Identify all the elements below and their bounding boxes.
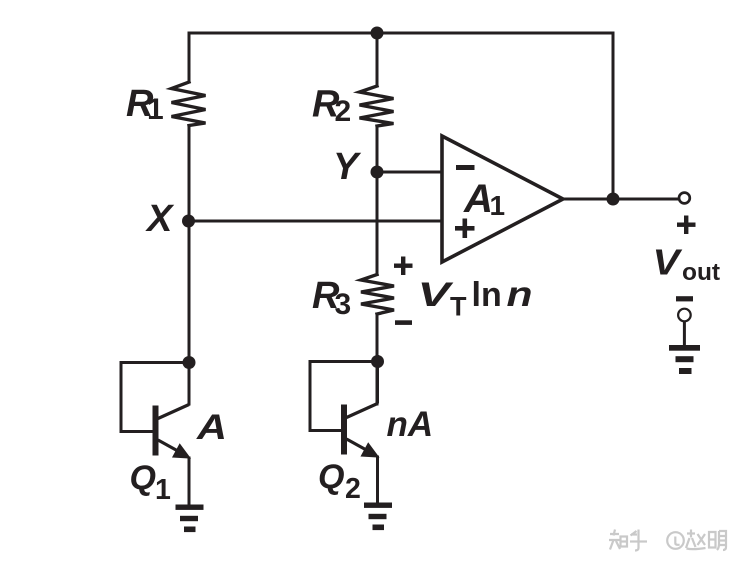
wire right vertical from top rail to output node — [612, 33, 615, 199]
wire left branch (R1 bottom through node X down to Q1 collector) — [188, 126, 191, 405]
label A1 (op-amp) — [463, 177, 505, 221]
Vout plus sign — [677, 216, 696, 235]
op-amp minus input sign — [456, 165, 475, 170]
svg-text:2: 2 — [345, 473, 361, 505]
svg-text:1: 1 — [490, 190, 506, 221]
transistor Q2 — [344, 355, 378, 503]
node Y junction dot — [371, 166, 384, 179]
node X junction dot — [182, 215, 195, 228]
label Q2 — [318, 458, 361, 505]
label node X — [145, 198, 175, 240]
Vout minus sign — [676, 296, 693, 301]
svg-text:Q: Q — [130, 459, 156, 497]
node dot top rail/R2 junction — [371, 27, 384, 40]
op-amp plus input sign — [455, 219, 475, 239]
svg-text:Y: Y — [333, 146, 362, 188]
Vout - terminal circle — [678, 309, 691, 322]
svg-text:V: V — [653, 242, 683, 283]
svg-text:ln: ln — [472, 276, 502, 314]
svg-text:3: 3 — [335, 288, 352, 321]
label VT ln n — [418, 275, 533, 322]
label node Y — [333, 146, 362, 188]
wire left branch top (rail to R1) — [188, 33, 191, 82]
svg-text:X: X — [145, 198, 175, 240]
label A (Q1 area ratio) — [196, 408, 227, 447]
svg-text:n: n — [507, 275, 533, 314]
Vout + output terminal circle — [679, 193, 690, 204]
wire node Y to op-amp - input — [377, 171, 442, 174]
label Vout — [653, 242, 721, 287]
wire Q1 base feedback loop — [121, 363, 189, 432]
wire op-amp output to Vout terminal — [563, 198, 678, 201]
svg-text:T: T — [450, 292, 467, 322]
svg-text:2: 2 — [335, 95, 352, 128]
ground (Vout) — [669, 345, 700, 374]
ground (Q2) — [364, 503, 392, 531]
R3 minus polarity sign — [395, 320, 412, 325]
Q1 collector-base junction dot — [183, 356, 196, 369]
wire middle branch (R3 bottom to Q2 collector) — [376, 314, 379, 404]
node output junction dot — [607, 193, 620, 206]
ground (Q1) — [176, 505, 204, 533]
wire top rail — [189, 32, 613, 35]
resistor R1 — [172, 82, 206, 126]
label nA (Q2 area ratio) — [387, 405, 434, 444]
wire node X to op-amp + input — [189, 220, 442, 223]
svg-text:A: A — [463, 177, 493, 221]
label R3 — [312, 275, 351, 321]
label R1 — [126, 83, 164, 126]
Q1 emitter arrowhead — [174, 445, 189, 457]
label R2 — [312, 84, 351, 129]
svg-text:Q: Q — [318, 458, 344, 496]
transistor Q1 — [156, 356, 190, 505]
Q2 emitter arrowhead — [362, 444, 377, 456]
wire Q2 base feedback loop — [310, 362, 378, 431]
svg-text:1: 1 — [155, 474, 171, 506]
R3 plus polarity sign — [394, 257, 413, 276]
svg-text:out: out — [682, 259, 720, 286]
wire middle branch top (rail to R2) — [376, 33, 379, 86]
watermark zhihu @zhaoming — [609, 530, 726, 551]
wire Vout - terminal to ground — [683, 322, 686, 346]
label Q1 — [130, 459, 172, 506]
wire middle branch (R2 bottom through Y and X-crossing to R3) — [376, 126, 379, 275]
op-amp A1 triangle — [442, 136, 563, 262]
resistor R3 — [361, 275, 394, 315]
svg-text:nA: nA — [387, 405, 434, 444]
resistor R2 — [360, 86, 394, 126]
Q2 collector-base junction dot — [371, 355, 384, 368]
svg-text:1: 1 — [147, 93, 164, 126]
svg-text:A: A — [196, 408, 227, 447]
